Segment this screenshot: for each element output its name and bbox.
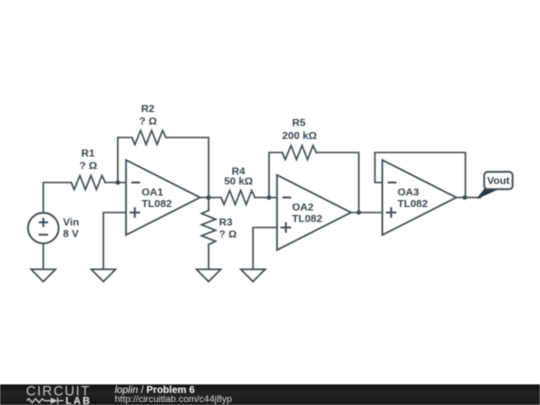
svg-text:TL082: TL082 [292, 213, 323, 225]
svg-text:? Ω: ? Ω [79, 160, 97, 172]
svg-text:Vout: Vout [487, 175, 510, 187]
svg-text:Vin: Vin [63, 216, 79, 228]
svg-text:200 kΩ: 200 kΩ [282, 130, 317, 142]
svg-text:R5: R5 [292, 117, 306, 129]
svg-text:R2: R2 [141, 103, 155, 115]
svg-text:50 kΩ: 50 kΩ [224, 176, 253, 188]
svg-text:OA3: OA3 [398, 186, 420, 198]
svg-text:R3: R3 [219, 217, 233, 229]
svg-text:TL082: TL082 [398, 198, 429, 210]
svg-text:OA1: OA1 [142, 186, 164, 198]
svg-text:? Ω: ? Ω [139, 115, 157, 127]
svg-text:TL082: TL082 [142, 198, 173, 210]
svg-text:LAB: LAB [66, 396, 92, 405]
svg-text:? Ω: ? Ω [219, 229, 237, 241]
svg-text:OA2: OA2 [292, 201, 314, 213]
svg-text:8 V: 8 V [63, 228, 79, 240]
svg-text:http://circuitlab.com/c44j8yp: http://circuitlab.com/c44j8yp [115, 394, 232, 405]
svg-text:R1: R1 [81, 148, 95, 160]
